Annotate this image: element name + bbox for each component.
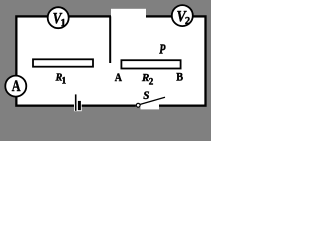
svg-text:S: S [143, 88, 149, 102]
battery gap in bottom wire [74, 103, 82, 111]
svg-text:1: 1 [60, 17, 66, 29]
svg-text:B: B [176, 72, 183, 84]
circuit loop wire (outer rectangle) [16, 16, 205, 105]
gray background [0, 0, 211, 141]
switch S pivot [136, 103, 140, 107]
switch notch below wire [141, 107, 160, 109]
switch gap in bottom wire [136, 103, 159, 107]
top wire gap (white notch) [111, 9, 146, 19]
ammeter A circle [5, 76, 26, 97]
svg-text:2: 2 [149, 76, 154, 86]
svg-text:2: 2 [185, 16, 190, 27]
svg-text:A: A [12, 78, 21, 95]
wire from top border down to node A [109, 16, 111, 63]
svg-text:P: P [159, 41, 166, 56]
battery long plate [75, 94, 77, 110]
battery short plate [78, 101, 81, 110]
resistor R1 body [33, 59, 93, 66]
rheostat R2 body [121, 60, 180, 68]
switch S blade [140, 97, 165, 104]
voltmeter V1 circle [48, 7, 69, 28]
svg-text:A: A [115, 72, 123, 84]
svg-text:1: 1 [62, 76, 67, 86]
voltmeter V2 circle [172, 5, 193, 26]
